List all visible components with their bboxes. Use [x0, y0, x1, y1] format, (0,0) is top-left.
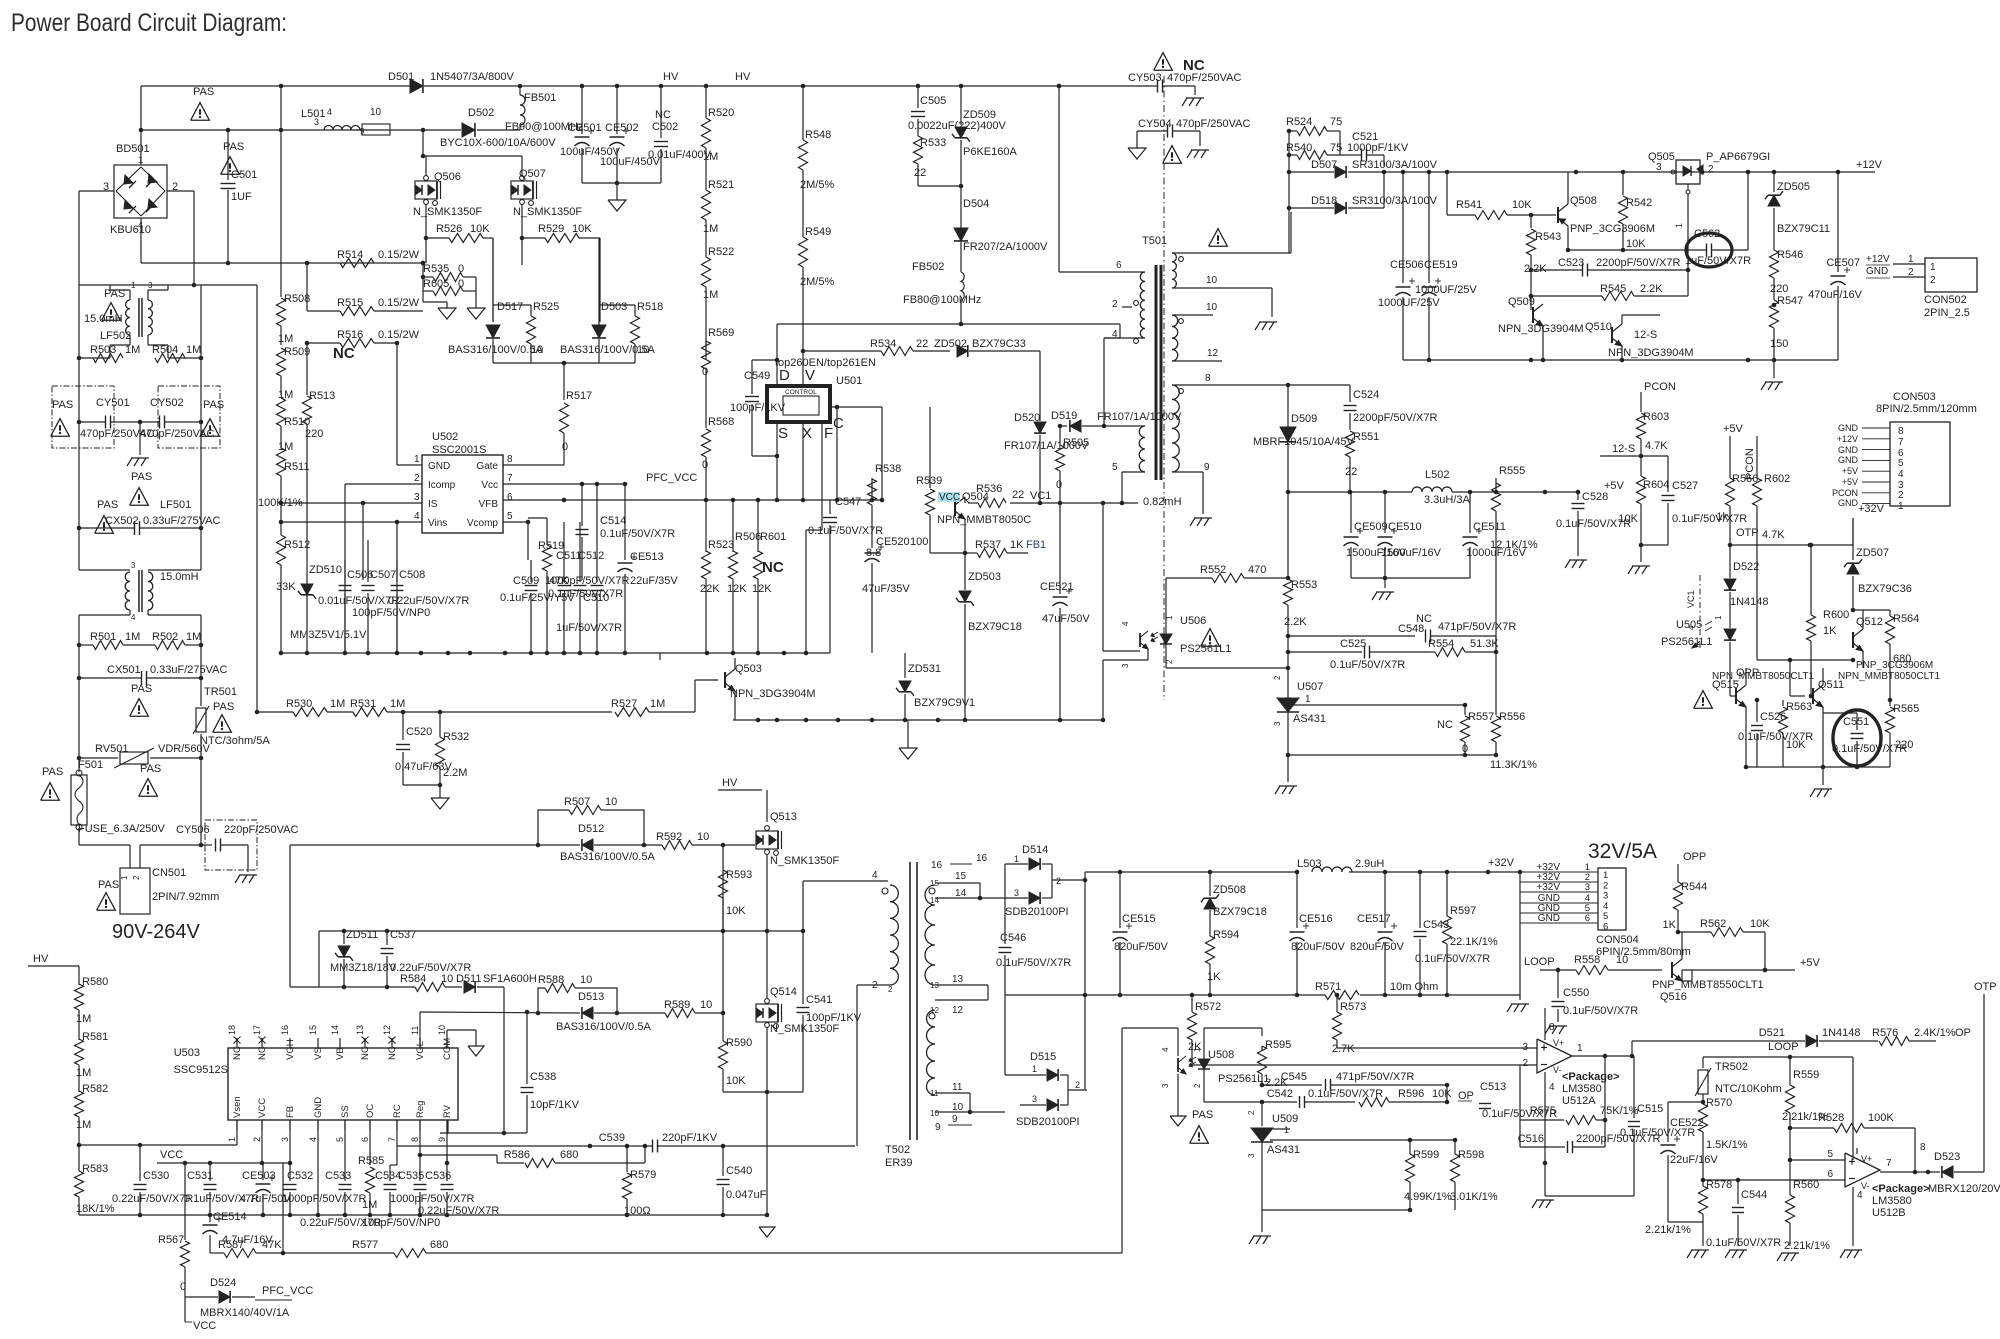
svg-text:1M: 1M [703, 151, 718, 163]
svg-text:BD501: BD501 [116, 143, 150, 155]
svg-text:1M: 1M [278, 389, 293, 401]
svg-text:2: 2 [1930, 275, 1936, 286]
svg-text:R577: R577 [352, 1239, 378, 1251]
svg-text:VS: VS [313, 1047, 324, 1060]
svg-text:0: 0 [702, 459, 708, 471]
wire t501 pin5 [1120, 472, 1125, 505]
wire rail to cy503 [1057, 84, 1062, 89]
svg-text:4.7K: 4.7K [1645, 440, 1668, 452]
svg-text:CY506: CY506 [176, 824, 210, 836]
svg-text:1: 1 [1305, 694, 1311, 705]
svg-text:1000pF/1KV: 1000pF/1KV [1347, 142, 1409, 154]
mosfet Q507 [511, 168, 582, 218]
transformer T502 sec2 [927, 1006, 1006, 1133]
svg-text:1K: 1K [1010, 539, 1024, 551]
svg-text:R566: R566 [1732, 473, 1758, 485]
resistor R599 [1404, 1140, 1452, 1212]
ground cy mid [127, 458, 149, 466]
wire topswitch gnd bus [733, 718, 1105, 723]
svg-text:LOOP: LOOP [1768, 1041, 1799, 1053]
svg-text:10K: 10K [1786, 739, 1806, 751]
svg-text:R556: R556 [1499, 711, 1525, 723]
svg-text:GND: GND [1838, 445, 1859, 455]
svg-text:C550: C550 [1563, 987, 1589, 999]
svg-text:Q512: Q512 [1856, 616, 1883, 628]
svg-text:R518: R518 [637, 301, 663, 313]
wire f501 col [77, 678, 204, 760]
wire r564 link [1851, 608, 1890, 613]
svg-text:FB1: FB1 [1026, 539, 1046, 551]
svg-text:NTC/3ohm/5A: NTC/3ohm/5A [200, 735, 270, 747]
resistor R535 [421, 263, 476, 282]
svg-text:3: 3 [280, 1137, 290, 1142]
capacitor C515 [1545, 1056, 1695, 1196]
svg-text:NC: NC [1183, 57, 1205, 74]
svg-text:OTP: OTP [1974, 981, 1997, 993]
svg-text:1M: 1M [76, 1013, 91, 1025]
svg-text:C549: C549 [744, 370, 770, 382]
wire vfb row [503, 498, 884, 503]
svg-text:2: 2 [1708, 164, 1714, 175]
ground t501 tap [1255, 322, 1277, 330]
svg-text:BAS316/100V/0.5A: BAS316/100V/0.5A [560, 851, 655, 863]
capacitor CE510 [1378, 492, 1442, 578]
svg-text:1: 1 [1577, 1043, 1583, 1054]
svg-text:R534: R534 [870, 338, 896, 350]
wire vsen row [79, 1120, 237, 1147]
svg-text:MBRF1045/10A/45V: MBRF1045/10A/45V [1253, 436, 1355, 448]
capacitor C532 [282, 1163, 366, 1215]
svg-text:2.21k/1%: 2.21k/1% [1645, 1224, 1691, 1236]
wire t501 pin8 [1172, 383, 1350, 388]
svg-text:PNP_MMBT8550CLT1: PNP_MMBT8550CLT1 [1652, 979, 1764, 991]
wire u502 pin4 [281, 520, 422, 656]
svg-text:10: 10 [441, 973, 453, 985]
svg-text:R512: R512 [284, 539, 310, 551]
resistor R580 [75, 976, 109, 1040]
svg-text:R545: R545 [1600, 283, 1626, 295]
wire con504 net 6 [1520, 913, 1598, 924]
svg-text:4: 4 [308, 1137, 318, 1142]
ic U503 pin 1 Vsen [227, 1096, 243, 1142]
svg-text:CON502: CON502 [1924, 294, 1967, 306]
wire vcc row [157, 1120, 292, 1165]
resistor R542 [1619, 172, 1653, 252]
svg-text:12: 12 [930, 1006, 939, 1015]
resistor R548 R549 chain [799, 86, 835, 336]
box cy506 dashed [205, 820, 257, 870]
capacitor C550 [1552, 970, 1639, 1022]
svg-text:CE510: CE510 [1388, 521, 1422, 533]
resistor R515 [307, 297, 423, 316]
svg-text:Vcc: Vcc [481, 480, 498, 491]
resistor R536 [968, 483, 1006, 508]
svg-text:CN501: CN501 [152, 867, 186, 879]
svg-text:10: 10 [370, 107, 382, 118]
capacitor C507 [352, 540, 430, 655]
svg-text:Power Board Circuit Diagram:: Power Board Circuit Diagram: [11, 9, 287, 37]
ic U502 pins [414, 454, 513, 529]
svg-text:CX502: CX502 [105, 515, 139, 527]
svg-text:3: 3 [1656, 162, 1662, 173]
node NC1 [333, 345, 355, 362]
svg-text:MBRX140/40V/1A: MBRX140/40V/1A [200, 1307, 290, 1319]
svg-text:0.1uF/50V/X7R: 0.1uF/50V/X7R [1832, 743, 1907, 755]
resistor R544 [1663, 881, 1708, 934]
svg-text:1M: 1M [186, 344, 201, 356]
svg-text:OC: OC [365, 1104, 376, 1118]
svg-text:PAS: PAS [223, 141, 244, 153]
ground u508 [1170, 1116, 1186, 1126]
svg-text:CONTROL: CONTROL [785, 389, 817, 396]
svg-text:8: 8 [1205, 373, 1211, 384]
capacitor C512 [548, 522, 623, 653]
svg-text:1000pF/50V/X7R: 1000pF/50V/X7R [545, 575, 629, 587]
svg-text:+5V: +5V [1842, 466, 1858, 476]
transformer LF502 [84, 281, 168, 345]
wire emi left rail [77, 285, 82, 570]
svg-text:90V-264V: 90V-264V [112, 921, 201, 943]
transformer T501 primary2 [1102, 329, 1145, 473]
svg-text:GND: GND [1838, 455, 1859, 465]
svg-text:Q509: Q509 [1508, 296, 1535, 308]
svg-text:PAS: PAS [193, 86, 214, 98]
svg-text:0: 0 [562, 441, 568, 453]
svg-text:10K: 10K [1750, 918, 1770, 930]
svg-text:U509: U509 [1272, 1113, 1298, 1125]
svg-text:C502: C502 [652, 121, 678, 133]
diode D513 [420, 991, 651, 1048]
svg-text:14: 14 [330, 1025, 340, 1035]
svg-text:220pF/1KV: 220pF/1KV [662, 1132, 718, 1144]
svg-text:R604: R604 [1643, 479, 1669, 491]
capacitor C536 [418, 1163, 499, 1217]
svg-text:R581: R581 [82, 1031, 108, 1043]
pas cy501 [51, 399, 74, 436]
svg-text:+32V: +32V [1488, 857, 1515, 869]
svg-text:U512A: U512A [1562, 1095, 1596, 1107]
node q516 labels [1652, 979, 1764, 1003]
svg-text:4: 4 [1161, 1047, 1170, 1052]
svg-text:22: 22 [916, 338, 928, 350]
svg-text:2.2K: 2.2K [1640, 283, 1663, 295]
wire r530 row start [255, 710, 260, 715]
svg-text:1M: 1M [703, 289, 718, 301]
svg-text:R526: R526 [436, 223, 462, 235]
pas cx501 [130, 683, 153, 716]
diode D520 [1004, 408, 1089, 505]
wire r572 row [1192, 1064, 1537, 1066]
svg-text:PAS: PAS [104, 288, 125, 300]
capacitor CY506 [176, 824, 298, 872]
svg-text:10K: 10K [470, 223, 490, 235]
svg-text:R507: R507 [564, 796, 590, 808]
svg-text:1N4148: 1N4148 [1730, 596, 1769, 608]
isolation barrier [1163, 76, 1165, 700]
svg-text:R578: R578 [1706, 1179, 1732, 1191]
svg-text:3: 3 [1273, 721, 1282, 726]
svg-text:100pF/1KV: 100pF/1KV [806, 1012, 862, 1024]
svg-text:1M: 1M [650, 698, 665, 710]
svg-text:R549: R549 [805, 226, 831, 238]
node +5V col [1723, 423, 1744, 478]
svg-text:R588: R588 [538, 974, 564, 986]
svg-text:7: 7 [387, 1137, 397, 1142]
pas u508 [1190, 1109, 1214, 1143]
svg-text:4: 4 [1857, 1190, 1863, 1201]
svg-text:1M: 1M [76, 1067, 91, 1079]
svg-text:+5V: +5V [1800, 957, 1821, 969]
svg-text:CE506: CE506 [1390, 259, 1424, 271]
shunt U507 [1273, 668, 1326, 757]
wire emi top [79, 283, 257, 712]
svg-text:470pF/250VAC: 470pF/250VAC [1176, 118, 1250, 130]
svg-text:2: 2 [1522, 1058, 1528, 1069]
svg-text:1N5407/3A/800V: 1N5407/3A/800V [430, 71, 514, 83]
wire 32v gnd rail [1005, 993, 1520, 998]
svg-text:C547: C547 [835, 496, 861, 508]
svg-text:U507: U507 [1297, 681, 1323, 693]
svg-text:CON503: CON503 [1893, 391, 1936, 403]
resistor R562 [1678, 918, 1770, 972]
svg-text:22: 22 [1345, 466, 1357, 478]
transistor Q511 [1813, 668, 1844, 767]
svg-text:NPN_3DG3904M: NPN_3DG3904M [1498, 323, 1584, 335]
svg-text:2M/5%: 2M/5% [800, 179, 834, 191]
resistor R605 [423, 263, 476, 308]
capacitor C531 [184, 1163, 259, 1215]
svg-text:Q503: Q503 [735, 663, 762, 675]
svg-text:100pF/1KV: 100pF/1KV [730, 402, 786, 414]
shunt U509 [1247, 1102, 1300, 1210]
svg-text:R532: R532 [443, 731, 469, 743]
wire ac bottom [79, 758, 212, 868]
svg-text:3: 3 [414, 492, 420, 503]
svg-text:1: 1 [227, 1137, 237, 1142]
svg-text:ZD510: ZD510 [309, 564, 342, 576]
wire con504 net 3 [1520, 882, 1598, 893]
svg-text:FB501: FB501 [524, 92, 556, 104]
resistor R511 [258, 448, 309, 509]
transformer T501 sec1 [1172, 212, 1291, 317]
svg-text:R564: R564 [1893, 613, 1919, 625]
svg-text:Q506: Q506 [434, 171, 461, 183]
svg-text:10K: 10K [1432, 1088, 1452, 1100]
pas rv501 [139, 763, 162, 796]
svg-text:10: 10 [952, 1102, 964, 1113]
ground r578 [1687, 1250, 1709, 1258]
wire d512 row left [290, 844, 500, 846]
svg-text:3: 3 [1522, 1042, 1528, 1053]
capacitor C543 [1414, 872, 1491, 995]
zener ZD502 [934, 338, 1040, 408]
svg-text:16: 16 [280, 1025, 290, 1035]
resistor R532 [436, 712, 470, 785]
svg-text:0: 0 [458, 263, 464, 275]
svg-text:14: 14 [930, 896, 939, 905]
wire u503 com loop [447, 1030, 476, 1048]
svg-text:4: 4 [1687, 625, 1696, 630]
svg-text:2200pF/50V/X7R: 2200pF/50V/X7R [1596, 257, 1680, 269]
svg-text:CE522: CE522 [1670, 1117, 1704, 1129]
transformer T501 primary1 [1059, 86, 1145, 338]
svg-text:Reg: Reg [415, 1101, 426, 1118]
thermistor TR501 [193, 678, 270, 758]
resistor R555 [1490, 465, 1538, 654]
svg-text:FR207/2A/1000V: FR207/2A/1000V [963, 241, 1048, 253]
svg-text:0.22uF/50V/X7R: 0.22uF/50V/X7R [112, 1193, 193, 1205]
svg-text:C536: C536 [425, 1170, 451, 1182]
svg-text:NC: NC [655, 109, 671, 121]
node PCON col [1744, 436, 1757, 480]
svg-text:0.1uF/50V/X7R: 0.1uF/50V/X7R [1415, 953, 1490, 965]
capacitor CE506 [1378, 172, 1440, 360]
svg-text:R585: R585 [358, 1155, 384, 1167]
svg-text:LF501: LF501 [160, 499, 191, 511]
fuse F501 [71, 758, 165, 845]
svg-text:R554: R554 [1428, 638, 1454, 650]
svg-text:1M: 1M [125, 631, 140, 643]
svg-text:1000pF/50V/X7R: 1000pF/50V/X7R [390, 1193, 474, 1205]
svg-text:C562: C562 [1694, 228, 1720, 240]
diode D501 [388, 71, 514, 93]
svg-text:22: 22 [914, 167, 926, 179]
pas PAS top [191, 86, 215, 120]
svg-text:R584: R584 [400, 973, 426, 985]
transistor Q503 [725, 658, 816, 720]
node 90V-264V [112, 921, 201, 943]
svg-text:Q514: Q514 [770, 986, 797, 998]
svg-text:10m Ohm: 10m Ohm [1390, 981, 1438, 993]
svg-text:C528: C528 [1582, 491, 1608, 503]
wire u501 V pin [801, 336, 806, 386]
svg-text:Gate: Gate [476, 461, 498, 472]
resistor R547 [1770, 295, 1804, 360]
svg-text:0.1uF/50V/X7R: 0.1uF/50V/X7R [600, 528, 675, 540]
svg-text:CE521: CE521 [1040, 581, 1074, 593]
pas cy504 [1163, 146, 1182, 164]
svg-text:Q508: Q508 [1570, 195, 1597, 207]
svg-text:75K/1%: 75K/1% [1600, 1105, 1639, 1117]
svg-text:D503: D503 [601, 301, 627, 313]
svg-text:BAS316/100V/0.5A: BAS316/100V/0.5A [556, 1021, 651, 1033]
svg-text:9: 9 [1204, 462, 1210, 473]
svg-text:1M: 1M [330, 698, 345, 710]
svg-text:1M: 1M [186, 631, 201, 643]
svg-text:220: 220 [1770, 283, 1788, 295]
svg-text:F: F [824, 425, 833, 442]
resistor R534 [803, 338, 950, 356]
svg-text:V+: V+ [1861, 1154, 1872, 1164]
svg-text:R552: R552 [1200, 564, 1226, 576]
svg-text:PAS: PAS [203, 399, 224, 411]
svg-text:2: 2 [132, 875, 141, 880]
svg-text:R558: R558 [1574, 954, 1600, 966]
ground u512a [1532, 1200, 1554, 1208]
ground cy503 [1182, 98, 1204, 106]
ic U503 pin 11 VGL [410, 1026, 426, 1060]
zener ZD531 [896, 653, 975, 720]
capacitor C535 [390, 1155, 474, 1215]
svg-text:22K: 22K [700, 583, 720, 595]
wire 32v rail left [1085, 870, 1299, 1090]
wire lf502 down [79, 285, 201, 358]
resistor R525 [493, 238, 559, 363]
wire u506 led [1166, 644, 1288, 668]
svg-text:HV: HV [33, 953, 49, 965]
svg-text:15.0mH: 15.0mH [160, 571, 199, 583]
svg-text:7: 7 [507, 473, 513, 484]
resistor R584 [387, 973, 462, 992]
capacitor C527 [1641, 456, 1747, 545]
wire bd left [79, 191, 114, 285]
svg-text:17: 17 [252, 1025, 262, 1035]
resistor R604 [1618, 456, 1669, 547]
svg-text:R504: R504 [152, 344, 178, 356]
svg-text:CON504: CON504 [1596, 934, 1639, 946]
wire c520 gnd [403, 783, 442, 798]
svg-text:CE503: CE503 [242, 1170, 276, 1182]
resistor R558 [1556, 954, 1662, 975]
capacitor C546 [996, 898, 1071, 1075]
capacitor C524 [1344, 385, 1438, 430]
wire as431 gnd [1262, 1210, 1410, 1232]
zener ZD509 [952, 86, 1017, 228]
resistor R516 [305, 329, 420, 348]
wire u507 k row [1288, 703, 1467, 708]
svg-text:10: 10 [697, 831, 709, 843]
wire u502 pin1 [397, 343, 422, 465]
resistor R518 [599, 301, 663, 363]
resistor R528 [1790, 1112, 1915, 1172]
svg-text:SDB20100PI: SDB20100PI [1005, 906, 1069, 918]
svg-text:12K: 12K [752, 583, 772, 595]
svg-text:R559: R559 [1793, 1069, 1819, 1081]
connector CON502 [1866, 254, 1977, 319]
svg-text:MM3Z5V1/5.1V: MM3Z5V1/5.1V [290, 629, 367, 641]
wire u501 S pin [775, 422, 780, 502]
capacitor C537 [381, 929, 472, 989]
wire u506 c [1101, 501, 1140, 651]
svg-text:3: 3 [1121, 663, 1130, 668]
svg-text:680: 680 [430, 1239, 448, 1251]
svg-text:8: 8 [1549, 1022, 1555, 1033]
svg-text:1: 1 [120, 875, 129, 880]
svg-text:10K: 10K [572, 223, 592, 235]
svg-text:SS: SS [340, 1105, 351, 1118]
node 12-S [1600, 443, 1641, 456]
zener ZD505 [1765, 172, 1830, 250]
svg-text:10K: 10K [1512, 199, 1532, 211]
svg-text:D513: D513 [578, 991, 604, 1003]
svg-text:PFC_VCC: PFC_VCC [262, 1285, 313, 1297]
capacitor CY503 [1128, 72, 1241, 95]
capacitor CE502 [600, 86, 661, 183]
ferrite FB501 [505, 86, 583, 133]
resistor R506 [727, 498, 761, 653]
ground cy506 [235, 875, 257, 883]
wire u512b vplus [1856, 1148, 1858, 1154]
svg-text:C537: C537 [390, 929, 416, 941]
svg-text:1M: 1M [362, 1199, 377, 1211]
svg-text:47K: 47K [262, 1239, 282, 1251]
svg-text:R541: R541 [1456, 199, 1482, 211]
svg-text:R593: R593 [726, 869, 752, 881]
mosfet Q514 [756, 931, 839, 1092]
wire r573 row [1337, 1047, 1537, 1049]
svg-text:C523: C523 [1558, 257, 1584, 269]
svg-text:PAS: PAS [213, 701, 234, 713]
